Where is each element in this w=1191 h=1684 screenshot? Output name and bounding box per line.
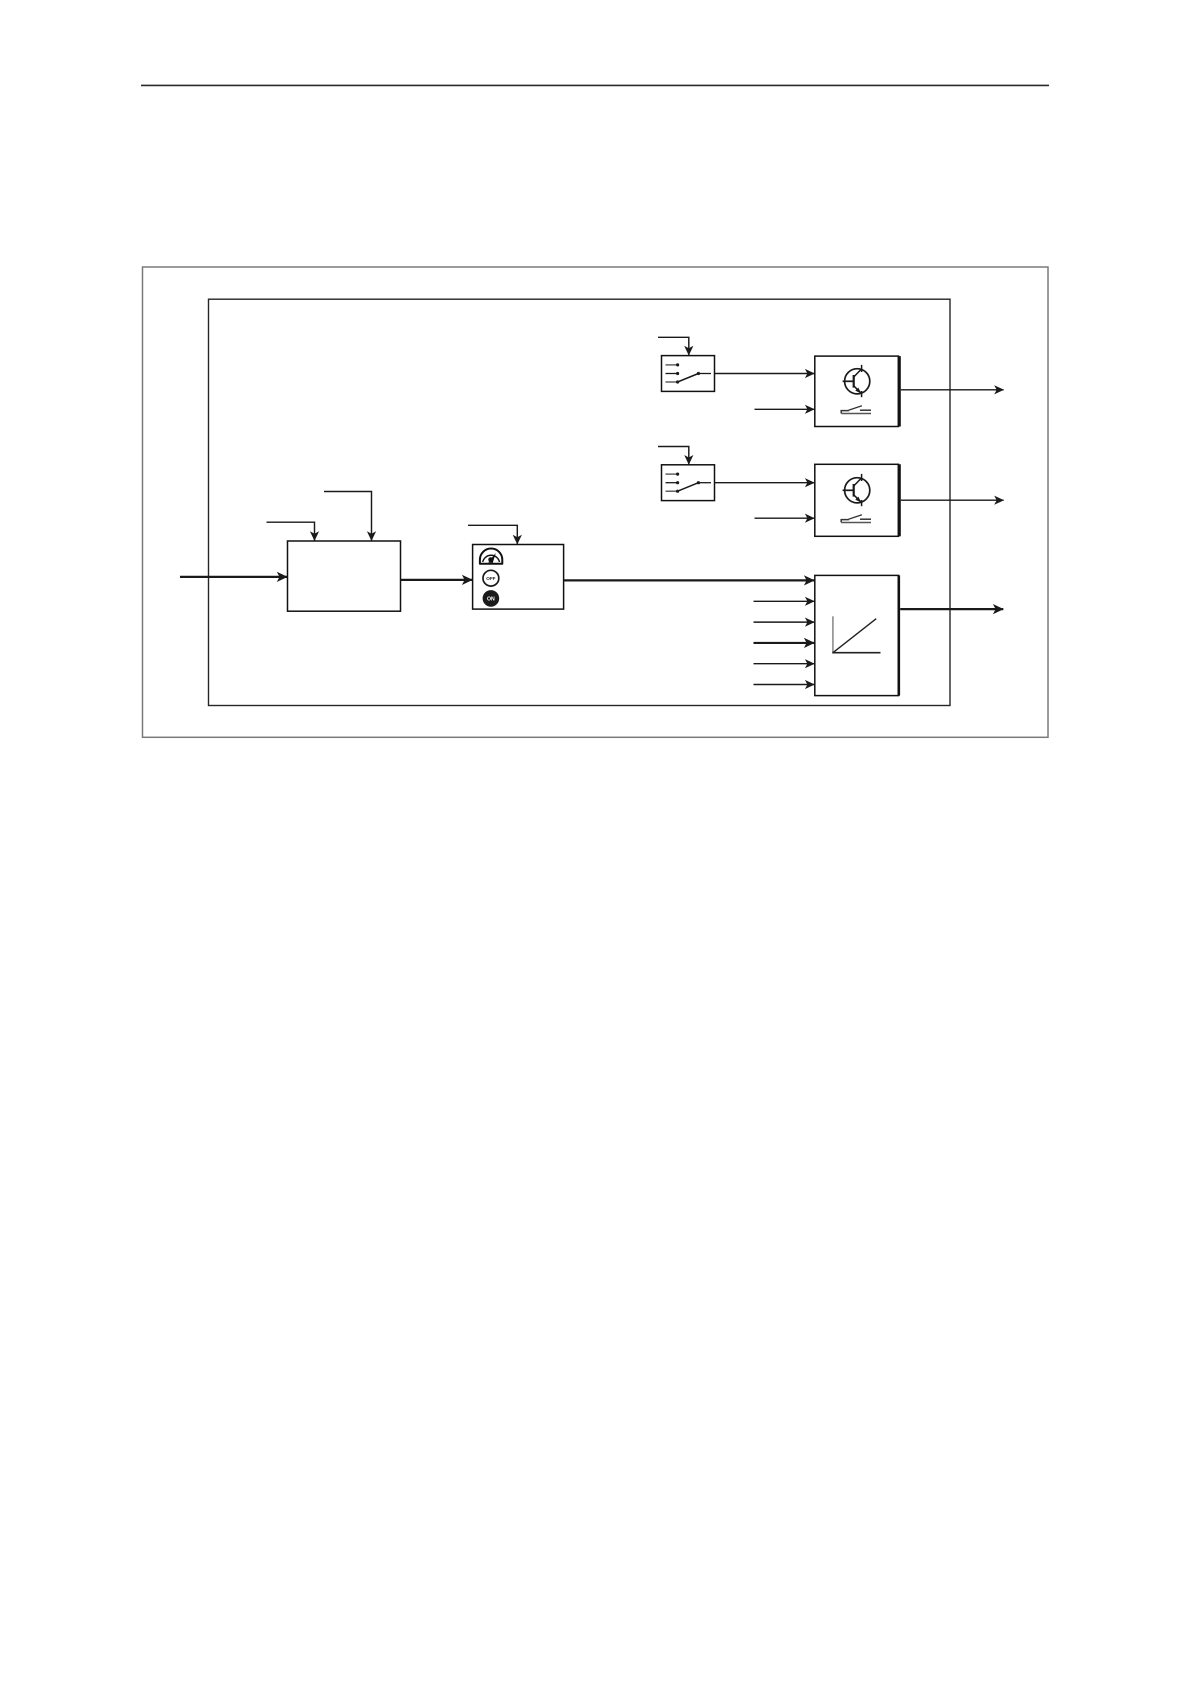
switch S1 symbol xyxy=(666,363,712,383)
gauge icon xyxy=(480,549,502,564)
wire: control A into B1 xyxy=(267,522,315,540)
wire: input 2 into T2 xyxy=(755,517,815,519)
wire: ramp input 4 xyxy=(754,642,815,644)
switch S2 box xyxy=(662,465,715,501)
driver block T2 xyxy=(815,464,899,536)
OFF button xyxy=(483,570,499,586)
wire: control into switch S1 xyxy=(658,337,689,355)
wire: output arrow from T2 xyxy=(901,499,1004,501)
wire: control B into B1 xyxy=(324,492,372,541)
wire: S2 to driver T2 xyxy=(715,482,815,484)
wire: ramp input 5 xyxy=(754,663,815,665)
wire: input 2 into T1 xyxy=(755,408,815,410)
transistor symbol in T1 xyxy=(843,365,870,397)
wire: output arrow from T1 xyxy=(901,389,1004,391)
ramp symbol xyxy=(832,616,880,653)
wire: B2 to ramp block xyxy=(564,579,815,581)
ON button xyxy=(483,590,500,607)
svg-text:OFF: OFF xyxy=(486,576,495,581)
switch S2 symbol xyxy=(666,473,712,493)
header rule xyxy=(141,84,1049,86)
wire: S1 to driver T1 xyxy=(715,373,815,375)
inner frame xyxy=(209,299,951,705)
driver block T1 xyxy=(815,356,899,426)
control block B1 xyxy=(288,541,401,611)
transistor symbol in T2 xyxy=(843,474,870,506)
wire: control C into B2 xyxy=(468,525,517,544)
wire: control into switch S2 xyxy=(658,447,689,465)
svg-text:ON: ON xyxy=(487,596,495,602)
mode block B2 xyxy=(473,545,564,610)
contact symbol in T2 xyxy=(841,515,871,523)
ramp block B3 xyxy=(815,575,899,695)
wire: ramp input 2 xyxy=(754,600,815,602)
contact symbol in T1 xyxy=(841,406,871,414)
wire: main input arrow xyxy=(180,576,287,578)
outer frame xyxy=(143,267,1049,737)
wire: ramp input 3 xyxy=(754,621,815,623)
wire: ramp input 6 xyxy=(754,684,815,686)
wire: B1 to B2 xyxy=(401,579,473,581)
wire: output arrow from ramp xyxy=(900,608,1003,610)
switch S1 box xyxy=(662,356,715,392)
